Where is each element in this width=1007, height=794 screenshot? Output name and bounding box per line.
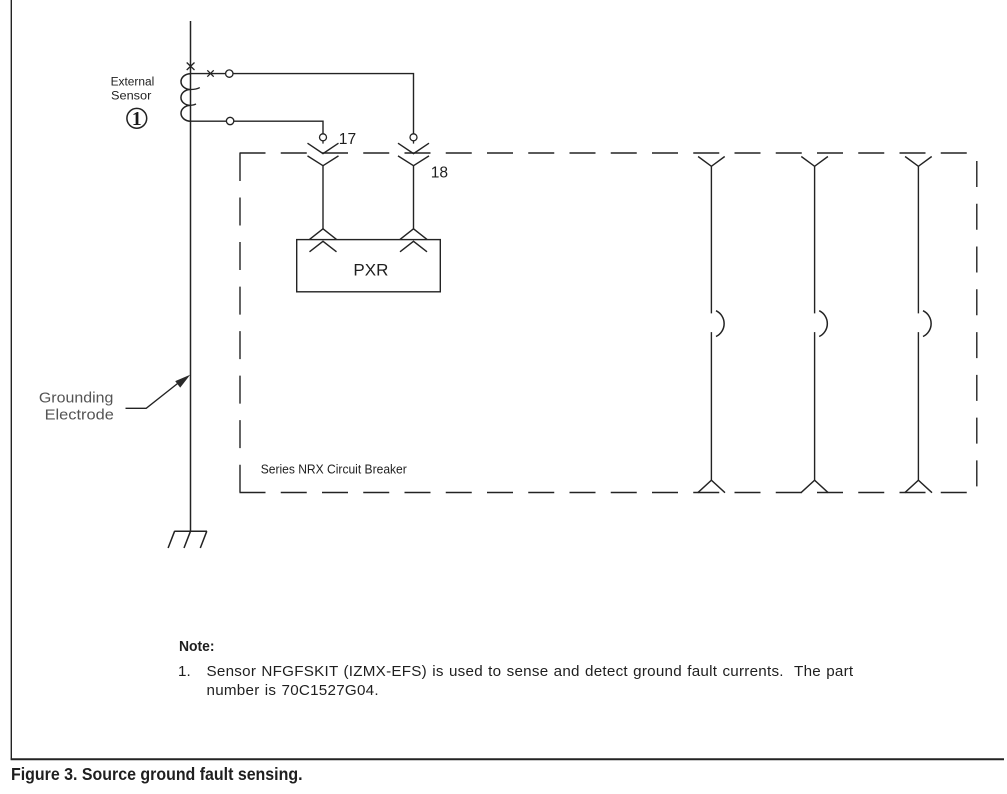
pole 3 contact arc	[923, 311, 931, 337]
breaker enclosure dashed box: right edge	[976, 161, 978, 486]
ground symbol hatch 1	[168, 531, 175, 548]
terminal circle 17	[320, 134, 327, 141]
pole 1 top stab	[698, 157, 725, 167]
pole 3 lower conductor	[917, 332, 919, 480]
pole 1 lower conductor	[710, 332, 712, 480]
leader arrowhead	[175, 375, 190, 388]
terminal circle 18	[410, 134, 417, 141]
pole 2 top stab	[801, 157, 828, 167]
svg-text:External: External	[111, 77, 155, 89]
ground symbol bar	[174, 530, 207, 532]
stub wire below circle 17	[322, 140, 324, 143]
ground symbol hatch 3	[200, 531, 207, 548]
wire terminal 17 to PXR	[322, 166, 324, 229]
coil crossover hook 1	[191, 88, 200, 90]
horizontal rule above caption	[11, 758, 1004, 760]
ground symbol hatch 2	[184, 531, 191, 548]
secondary disconnect chevrons terminal 18	[398, 143, 429, 166]
grounding electrode conductor (vertical wire)	[190, 21, 192, 531]
svg-text:Grounding: Grounding	[39, 389, 114, 406]
stub wire below circle 18	[413, 140, 415, 143]
pole 1 contact arc	[716, 311, 724, 337]
pole 2 bottom stab	[801, 480, 828, 493]
polarity mark x on top wire	[207, 70, 213, 76]
terminal circle on bottom wire	[226, 117, 233, 124]
breaker enclosure dashed box: top edge	[240, 152, 977, 154]
note item text	[207, 662, 854, 700]
PXR trip unit box U1	[297, 240, 441, 292]
PXR input chevrons (right)	[400, 229, 427, 252]
pole 1 upper conductor	[710, 166, 712, 313]
pole 3 bottom stab	[905, 480, 932, 493]
pole 3 top stab	[905, 157, 932, 167]
svg-text:18: 18	[431, 164, 448, 181]
svg-text:17: 17	[339, 131, 356, 148]
breaker enclosure dashed box: bottom edge	[240, 492, 977, 494]
wire: coil top to terminal 18	[191, 74, 414, 135]
note heading	[179, 639, 215, 654]
sensor coil L1 (external sensor winding)	[181, 74, 191, 122]
leader line to conductor	[126, 380, 183, 408]
pole 2 upper conductor	[814, 166, 816, 313]
polarity mark x on conductor	[187, 63, 195, 71]
coil crossover hook 2	[191, 104, 197, 105]
breaker enclosure dashed box: left edge	[239, 153, 241, 493]
page left border	[10, 0, 12, 760]
terminal circle on top wire	[226, 70, 233, 77]
wire: coil bottom to terminal 17	[191, 121, 324, 134]
pole 3 upper conductor	[917, 166, 919, 313]
PXR input chevrons (left)	[310, 229, 337, 252]
pole 2 lower conductor	[814, 332, 816, 480]
pole 1 bottom stab	[698, 480, 725, 493]
pole 2 contact arc	[819, 311, 827, 337]
svg-text:Series NRX Circuit Breaker: Series NRX Circuit Breaker	[261, 461, 408, 476]
svg-text:Sensor: Sensor	[111, 91, 152, 103]
wire terminal 18 to PXR	[413, 166, 415, 229]
figure caption	[11, 766, 303, 783]
secondary disconnect chevrons terminal 17	[308, 143, 339, 166]
svg-text:PXR: PXR	[353, 261, 388, 280]
note item number	[178, 662, 191, 681]
svg-text:Electrode: Electrode	[45, 406, 114, 423]
callout circled 1	[127, 108, 147, 128]
svg-text:1: 1	[132, 109, 142, 130]
